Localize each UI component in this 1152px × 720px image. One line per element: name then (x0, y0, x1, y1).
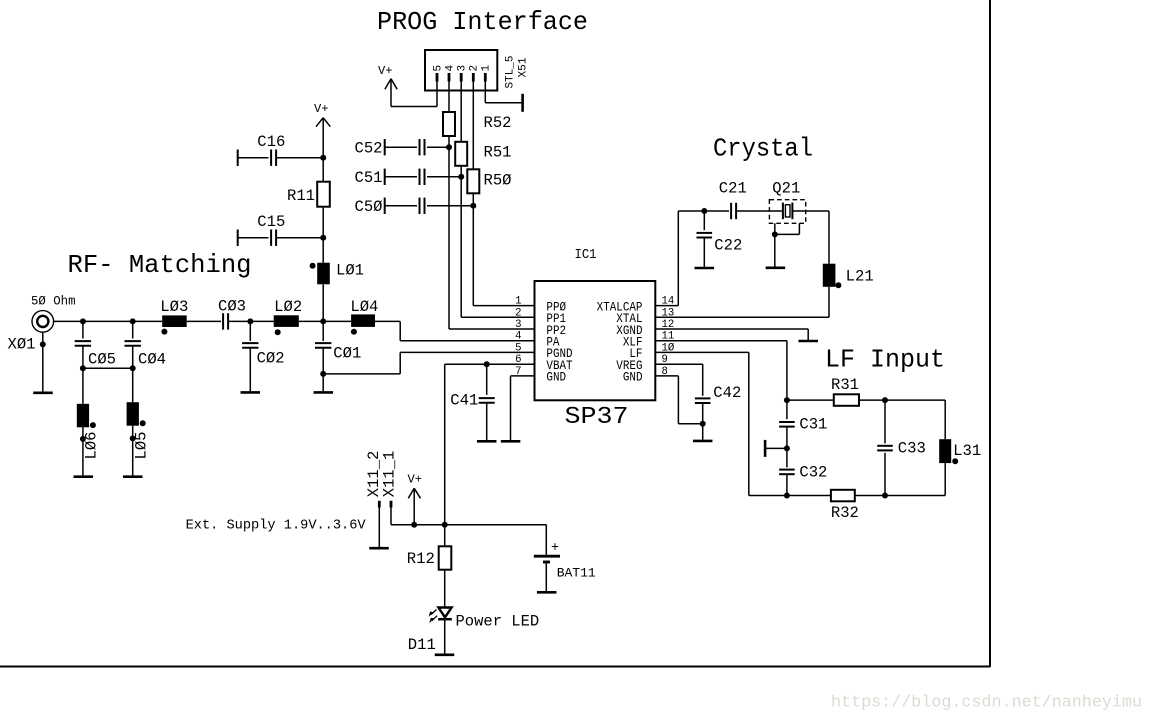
svg-text:Q21: Q21 (772, 179, 800, 197)
svg-text:L21: L21 (846, 267, 874, 285)
svg-text:CØ3: CØ3 (218, 298, 246, 316)
svg-text:C51: C51 (355, 169, 383, 187)
svg-text:C32: C32 (799, 463, 827, 481)
svg-text:4: 4 (515, 331, 522, 343)
svg-text:CØ5: CØ5 (88, 351, 116, 369)
svg-text:V+: V+ (408, 473, 423, 487)
svg-text:C16: C16 (257, 133, 285, 151)
svg-text:L31: L31 (953, 442, 981, 460)
svg-text:R5Ø: R5Ø (484, 171, 512, 189)
svg-text:R12: R12 (407, 550, 435, 568)
svg-text:SP37: SP37 (565, 404, 629, 431)
svg-text:X11_1: X11_1 (381, 451, 399, 498)
svg-text:+: + (551, 540, 559, 556)
svg-text:C15: C15 (257, 213, 285, 231)
svg-text:X51: X51 (518, 57, 530, 77)
svg-text:C21: C21 (719, 179, 747, 197)
svg-text:R31: R31 (831, 376, 859, 394)
svg-text:LØ2: LØ2 (274, 298, 302, 316)
svg-text:C41: C41 (450, 391, 478, 409)
svg-text:3: 3 (457, 65, 469, 72)
svg-text:LØ3: LØ3 (160, 298, 188, 316)
svg-text:Ext. Supply 1.9V..3.6V: Ext. Supply 1.9V..3.6V (186, 519, 367, 534)
svg-text:1: 1 (481, 65, 493, 72)
svg-text:LØ6: LØ6 (83, 432, 101, 460)
svg-text:LØ5: LØ5 (132, 432, 150, 460)
svg-text:V+: V+ (378, 64, 393, 78)
svg-text:R32: R32 (831, 504, 859, 522)
svg-text:C52: C52 (355, 140, 383, 158)
svg-text:C42: C42 (713, 384, 741, 402)
svg-text:5Ø Ohm: 5Ø Ohm (31, 295, 76, 309)
svg-text:LØ1: LØ1 (336, 261, 364, 279)
svg-text:LF Input: LF Input (825, 344, 945, 374)
svg-text:CØ4: CØ4 (138, 351, 166, 369)
svg-text:2: 2 (469, 65, 481, 72)
svg-text:https://blog.csdn.net/nanheyim: https://blog.csdn.net/nanheyimu (831, 694, 1142, 713)
svg-text:CØ2: CØ2 (257, 349, 285, 367)
svg-text:CØ1: CØ1 (333, 344, 361, 362)
svg-text:BAT11: BAT11 (557, 566, 596, 581)
svg-text:C31: C31 (799, 416, 827, 434)
svg-text:C22: C22 (714, 237, 742, 255)
svg-text:5: 5 (515, 342, 521, 354)
svg-text:R51: R51 (484, 144, 512, 162)
svg-text:XØ1: XØ1 (8, 336, 36, 354)
svg-text:Power LED: Power LED (456, 613, 540, 631)
svg-text:5: 5 (432, 65, 444, 72)
svg-text:RF- Matching: RF- Matching (68, 250, 252, 280)
svg-text:V+: V+ (314, 102, 329, 116)
svg-text:C33: C33 (898, 439, 926, 457)
svg-text:D11: D11 (408, 636, 436, 654)
svg-text:LØ4: LØ4 (350, 298, 378, 316)
svg-text:IC1: IC1 (575, 247, 597, 263)
svg-text:Crystal: Crystal (713, 134, 813, 164)
svg-text:4: 4 (444, 65, 456, 72)
svg-text:C5Ø: C5Ø (355, 198, 383, 216)
svg-text:GND: GND (623, 371, 643, 385)
svg-text:STL_5: STL_5 (505, 56, 517, 89)
svg-text:GND: GND (546, 371, 566, 385)
svg-text:R52: R52 (484, 114, 512, 132)
svg-text:R11: R11 (287, 187, 315, 205)
svg-text:PROG Interface: PROG Interface (377, 7, 588, 37)
